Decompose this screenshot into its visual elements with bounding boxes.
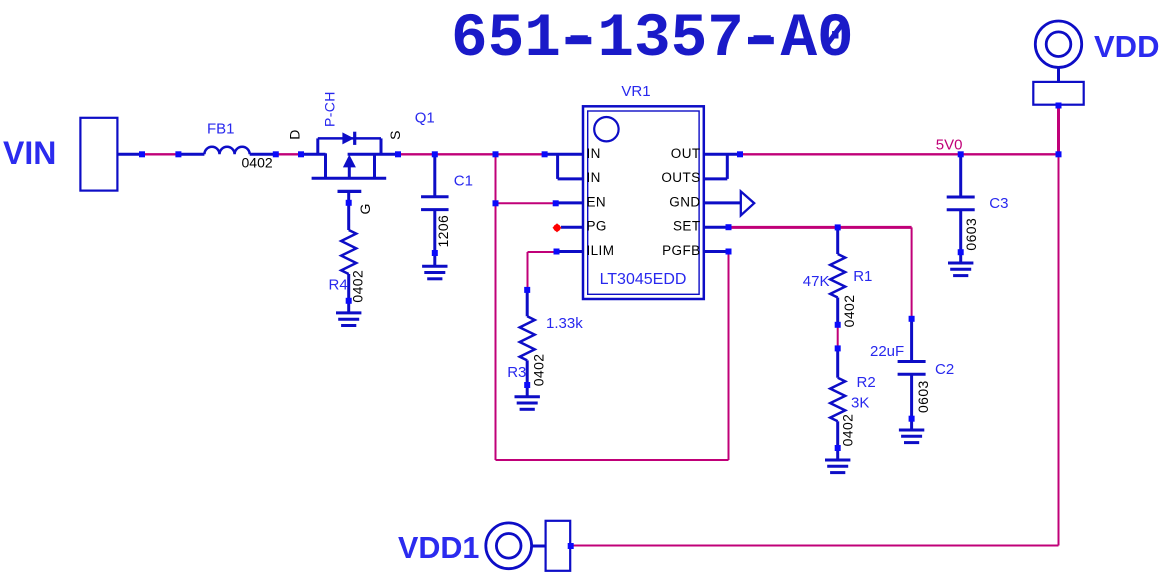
svg-text:Q1: Q1	[415, 110, 435, 127]
svg-text:LT3045EDD: LT3045EDD	[600, 271, 687, 288]
svg-text:PG: PG	[587, 219, 607, 234]
svg-text:EN: EN	[587, 194, 607, 209]
svg-text:5V0: 5V0	[936, 137, 963, 154]
svg-text:1.33k: 1.33k	[546, 315, 583, 332]
svg-text:GND: GND	[669, 194, 700, 209]
svg-text:ILIM: ILIM	[587, 243, 615, 258]
svg-text:C1: C1	[454, 172, 473, 189]
svg-text:D: D	[287, 129, 303, 140]
svg-text:IN: IN	[587, 146, 601, 161]
svg-text:P-CH: P-CH	[322, 91, 338, 127]
svg-text:R4: R4	[329, 277, 348, 294]
svg-text:C3: C3	[989, 195, 1008, 212]
svg-text:SET: SET	[673, 219, 700, 234]
svg-text:651-1357-A0: 651-1357-A0	[451, 5, 854, 74]
svg-text:S: S	[387, 130, 403, 140]
svg-text:FB1: FB1	[207, 121, 235, 138]
svg-text:0402: 0402	[350, 270, 366, 303]
svg-text:VR1: VR1	[621, 83, 650, 100]
svg-text:G: G	[357, 203, 373, 214]
svg-text:0402: 0402	[839, 414, 855, 447]
svg-text:PGFB: PGFB	[662, 243, 700, 258]
svg-text:OUTS: OUTS	[661, 170, 700, 185]
svg-text:1206: 1206	[435, 215, 451, 248]
svg-text:22uF: 22uF	[870, 343, 904, 360]
svg-text:OUT: OUT	[671, 146, 701, 161]
svg-text:0402: 0402	[242, 155, 273, 171]
svg-text:R2: R2	[857, 374, 876, 391]
svg-text:IN: IN	[587, 170, 601, 185]
svg-text:VDD: VDD	[1094, 29, 1159, 64]
svg-text:VIN: VIN	[3, 135, 56, 171]
svg-text:0603: 0603	[963, 218, 979, 251]
svg-text:VDD1: VDD1	[398, 531, 479, 565]
svg-text:0402: 0402	[531, 354, 547, 387]
svg-text:R3: R3	[507, 364, 526, 381]
svg-text:0603: 0603	[915, 380, 931, 413]
svg-text:C2: C2	[935, 361, 954, 378]
svg-text:0402: 0402	[841, 295, 857, 328]
svg-text:R1: R1	[853, 268, 872, 285]
svg-text:3K: 3K	[851, 395, 869, 412]
svg-text:47K: 47K	[803, 273, 830, 290]
